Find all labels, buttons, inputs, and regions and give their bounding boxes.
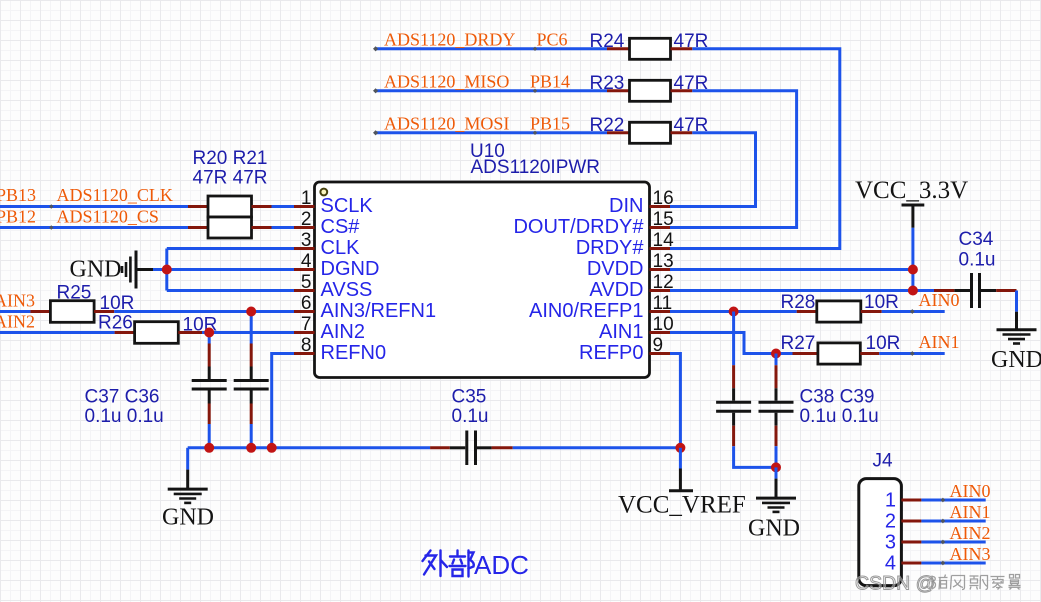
wire GND drop bottom-left — [186, 448, 189, 470]
capacitor C37 — [192, 333, 227, 448]
wire R26 to pin7 AIN2 — [202, 331, 294, 334]
capacitor C35 value 0.1u — [452, 406, 489, 427]
svg-text:REFN0: REFN0 — [321, 342, 387, 364]
resistor R22 right lead — [671, 131, 693, 134]
resistor R24 left lead — [607, 47, 630, 50]
resistor R27 value 10R — [866, 333, 901, 354]
J4 pin 4 stub — [901, 562, 921, 565]
U10 pin 12 name AVDD — [589, 279, 643, 301]
svg-text:GND: GND — [991, 347, 1041, 373]
connector J4 body — [859, 479, 902, 586]
wire pin11 AIN0/REFP1 — [670, 310, 797, 313]
net label ADS1120_CLK — [57, 185, 173, 205]
wire GND to pin4 DGND — [153, 268, 294, 271]
capacitor C38 C39 values — [800, 406, 879, 427]
U10 pin 4 number — [301, 251, 312, 272]
svg-text:4: 4 — [301, 251, 312, 272]
U10 pin 11 stub — [650, 310, 671, 313]
svg-text:9: 9 — [653, 335, 664, 356]
svg-text:ADS1120_MOSI: ADS1120_MOSI — [384, 113, 509, 133]
wire R27 to AIN1 label — [879, 352, 945, 355]
svg-text:AIN1: AIN1 — [919, 332, 960, 352]
connector J4 designator — [873, 451, 894, 472]
wire C35 to VREF junction — [513, 446, 681, 449]
svg-text:PB13: PB13 — [0, 185, 36, 205]
svg-text:DVDD: DVDD — [587, 258, 644, 280]
net label anchor AIN1 — [910, 351, 915, 356]
svg-text:R26: R26 — [98, 312, 133, 333]
resistor R24 value 47R — [674, 31, 709, 52]
wire to pin3 CLK — [167, 247, 294, 250]
net label PB15 — [530, 113, 570, 133]
net label AIN0 at J4 — [950, 481, 991, 501]
resistor R21 — [208, 217, 252, 238]
svg-text:2: 2 — [301, 209, 312, 230]
svg-text:DGND: DGND — [321, 258, 380, 280]
title text 外部ADC — [423, 550, 529, 580]
wire pin12 AVDD — [670, 289, 935, 292]
wire jog to R27 — [776, 352, 793, 355]
U10 pin 5 name AVSS — [321, 279, 373, 301]
U10 pin 13 stub — [650, 268, 671, 271]
resistor R23 — [630, 80, 671, 101]
junction C37 top — [204, 328, 214, 338]
junction REFN0 bottom — [267, 443, 277, 453]
capacitor C34 right pin — [996, 289, 1016, 292]
resistor R26 left lead — [115, 331, 135, 334]
net label anchor row2 — [533, 89, 537, 93]
wire J4 pin 3 AIN2 — [921, 541, 985, 544]
svg-text:1: 1 — [885, 489, 896, 511]
net label anchor J4 AIN3 — [941, 561, 946, 566]
U10 pin 16 stub — [650, 205, 671, 208]
svg-text:GND: GND — [748, 516, 800, 542]
svg-text:R28: R28 — [781, 292, 816, 313]
wire R25 to pin6 AIN3/REFN1 — [114, 310, 294, 313]
capacitor C35 right symbol lead — [477, 446, 492, 449]
wire to pin5 AVSS — [167, 289, 294, 292]
wire pin10 AIN1 jog — [670, 333, 776, 354]
svg-text:6: 6 — [301, 293, 312, 314]
svg-text:0.1u: 0.1u — [959, 249, 996, 270]
ground symbol GND top-right — [997, 312, 1037, 344]
U10 pin 1 name SCLK — [321, 195, 374, 217]
GND label top-right — [991, 347, 1041, 373]
resistor R20 R21 designators — [193, 148, 268, 169]
U10 pin 12 stub — [650, 289, 671, 292]
net label AIN1 right — [919, 332, 960, 352]
svg-text:CLK: CLK — [321, 237, 361, 259]
svg-text:REFP0: REFP0 — [579, 342, 643, 364]
U10 pin 12 number — [653, 272, 674, 293]
resistor R24 right lead — [671, 47, 693, 50]
J4 pin 4 number — [885, 552, 896, 574]
svg-text:47R 47R: 47R 47R — [193, 167, 268, 188]
svg-text:C34: C34 — [959, 229, 994, 250]
svg-text:ADS1120IPWR: ADS1120IPWR — [471, 157, 601, 178]
U10 pin-1 indicator — [320, 189, 327, 196]
net label AIN3 — [0, 290, 35, 310]
resistor R27 left lead — [793, 352, 818, 355]
resistor R28 left lead — [797, 310, 817, 313]
U10 pin 10 name AIN1 — [599, 321, 643, 343]
resistor R26 designator — [98, 312, 133, 333]
U10 pin 8 stub — [294, 352, 315, 355]
U10 pin 2 number — [301, 209, 312, 230]
resistor R21 right lead — [252, 226, 272, 229]
capacitor C39 — [759, 354, 794, 468]
svg-text:R24: R24 — [590, 31, 625, 52]
wire R22 to pin16 DIN — [670, 133, 756, 207]
wire net ADS1120_MISO__PB14 left segment — [376, 89, 607, 92]
U10 pin 16 number — [653, 188, 674, 209]
resistor R21 left lead — [188, 226, 208, 229]
U10 pin 7 number — [301, 314, 312, 335]
wire net ADS1120_MOSI__PB15 left segment — [376, 131, 607, 134]
resistor R25 designator — [57, 283, 92, 304]
U10 pin 3 name CLK — [321, 237, 361, 259]
wire R20 to pin1 SCLK — [272, 205, 295, 208]
net label AIN2 — [0, 312, 35, 332]
resistor R22 designator — [590, 115, 625, 136]
svg-text:0.1u: 0.1u — [452, 406, 489, 427]
power port VCC_VREF — [669, 448, 693, 491]
U10 pin 14 name DRDY# — [576, 237, 645, 259]
svg-text:0.1u 0.1u: 0.1u 0.1u — [800, 406, 879, 427]
U10 pin 10 stub — [650, 331, 671, 334]
U10 pin 15 number — [653, 209, 674, 230]
svg-text:4: 4 — [885, 552, 896, 574]
svg-text:GND: GND — [70, 257, 122, 283]
wire pin9 REFP0 down to VREF — [670, 354, 680, 448]
net label ADS1120_MOSI — [384, 113, 509, 133]
capacitor C35 left symbol lead — [450, 446, 466, 449]
wire end marker row3 — [373, 130, 378, 135]
svg-text:DRDY#: DRDY# — [576, 237, 645, 259]
capacitor C38 — [716, 312, 776, 468]
svg-text:C38 C39: C38 C39 — [800, 387, 875, 408]
resistor R26 — [135, 322, 179, 344]
resistor R22 value 47R — [674, 115, 709, 136]
resistor R20 R21 values — [193, 167, 268, 188]
wire net AIN2 — [0, 331, 115, 334]
junction C36 bottom — [246, 443, 256, 453]
capacitor C37 C36 designators — [85, 387, 160, 408]
resistor R22 left lead — [607, 131, 630, 134]
U10 designator — [470, 141, 505, 162]
net label anchor row1 — [533, 47, 537, 51]
U10 pin 10 number — [653, 314, 674, 335]
wire pin13 DVDD — [670, 268, 913, 271]
wire end marker row1 — [373, 46, 378, 51]
ground symbol GND left (rotated) — [122, 251, 153, 289]
wire junction to GND mid — [775, 467, 778, 478]
svg-text:R22: R22 — [590, 115, 625, 136]
wire R21 to pin2 CS# — [272, 226, 295, 229]
resistor R26 value 10R — [183, 314, 218, 335]
svg-text:VCC_3.3V: VCC_3.3V — [855, 177, 968, 204]
GND label mid — [748, 516, 800, 542]
resistor R23 designator — [590, 73, 625, 94]
net label AIN1 at J4 — [950, 502, 991, 522]
svg-text:3: 3 — [885, 531, 896, 553]
ground symbol GND mid — [756, 479, 796, 512]
wire VCC_3.3V down — [911, 228, 914, 291]
svg-text:DIN: DIN — [609, 195, 643, 217]
svg-text:AIN1: AIN1 — [950, 502, 991, 522]
U10 pin 16 name DIN — [609, 195, 643, 217]
resistor R28 designator — [781, 292, 816, 313]
resistor R24 designator — [590, 31, 625, 52]
resistor R23 right lead — [671, 89, 693, 92]
svg-text:ADS1120_DRDY: ADS1120_DRDY — [384, 29, 515, 49]
svg-text:VCC_VREF: VCC_VREF — [618, 492, 746, 519]
svg-text:AIN3/REFN1: AIN3/REFN1 — [321, 300, 437, 322]
op-amp U10 ADS1120IPWR body — [315, 182, 650, 378]
junction VCC-DVDD — [908, 265, 918, 275]
U10 pin 3 stub — [294, 247, 315, 250]
svg-text:SCLK: SCLK — [321, 195, 374, 217]
U10 pin 6 stub — [294, 310, 315, 313]
svg-text:15: 15 — [653, 209, 674, 230]
U10 pin 13 name DVDD — [587, 258, 644, 280]
svg-text:AVDD: AVDD — [589, 279, 643, 301]
net label ADS1120_DRDY — [384, 29, 515, 49]
wire GND bus vertical — [165, 249, 168, 291]
resistor R27 right lead — [860, 352, 879, 355]
resistor R25 left lead — [30, 310, 50, 313]
U10 pin 3 number — [301, 230, 312, 251]
capacitor C35 plates — [467, 431, 476, 466]
capacitor C34 left pin — [934, 289, 954, 292]
svg-text:ADS1120_CS: ADS1120_CS — [57, 206, 159, 226]
resistor R20 right lead — [252, 205, 272, 208]
svg-text:AIN0/REFP1: AIN0/REFP1 — [529, 300, 643, 322]
svg-text:AIN3: AIN3 — [950, 544, 991, 564]
capacitor C34 plates — [972, 273, 980, 308]
svg-text:0.1u 0.1u: 0.1u 0.1u — [85, 406, 164, 427]
net label PB14 — [530, 71, 570, 91]
capacitor C34 value 0.1u — [959, 249, 996, 270]
junction C38 C39 bottom — [771, 462, 781, 472]
svg-text:3: 3 — [301, 230, 312, 251]
capacitor C34 left symbol lead — [954, 289, 970, 292]
svg-text:DOUT/DRDY#: DOUT/DRDY# — [513, 216, 644, 238]
wire C34 to GND — [1015, 291, 1018, 312]
svg-text:AIN1: AIN1 — [599, 321, 643, 343]
svg-text:AIN3: AIN3 — [0, 290, 35, 310]
wire net ADS1120_CS — [0, 226, 188, 229]
resistor R20 left lead — [188, 205, 208, 208]
U10 pin 2 stub — [294, 226, 315, 229]
U10 pin 2 name CS# — [321, 216, 361, 238]
svg-text:8: 8 — [301, 335, 312, 356]
net label ADS1120_CS — [57, 206, 159, 226]
svg-text:CS#: CS# — [321, 216, 361, 238]
U10 pin 6 number — [301, 293, 312, 314]
net label PC6 — [537, 29, 568, 49]
svg-text:PB12: PB12 — [0, 206, 36, 226]
capacitor C35 designator — [452, 387, 487, 408]
svg-text:ADS1120_MISO: ADS1120_MISO — [384, 71, 509, 91]
U10 pin 13 number — [653, 251, 674, 272]
wire R23 to pin15 DOUT/DRDY# — [670, 91, 797, 228]
wire R28 to AIN0 label — [882, 310, 945, 313]
svg-text:5: 5 — [301, 272, 312, 293]
svg-text:AIN2: AIN2 — [321, 321, 365, 343]
net label AIN3 at J4 — [950, 544, 991, 564]
U10 pin 4 name DGND — [321, 258, 380, 280]
junction GND cluster — [162, 265, 172, 275]
net label anchor AIN0 — [910, 309, 915, 314]
junction C38 top — [729, 307, 739, 317]
U10 pin 14 number — [653, 230, 675, 251]
watermark CSDN @随风飘零翼 — [855, 573, 1021, 595]
svg-text:10R: 10R — [866, 333, 901, 354]
U10 pin 8 number — [301, 335, 312, 356]
resistor R23 value 47R — [674, 73, 709, 94]
svg-text:CSDN @: CSDN @ — [855, 573, 935, 595]
wire J4 pin 2 AIN1 — [921, 520, 985, 523]
U10 pin 4 stub — [294, 268, 315, 271]
U10 pin 9 name REFP0 — [579, 342, 643, 364]
svg-text:R23: R23 — [590, 73, 625, 94]
U10 pin 15 stub — [650, 226, 671, 229]
svg-text:J4: J4 — [873, 451, 894, 472]
U10 pin 8 name REFN0 — [321, 342, 387, 364]
U10 pin 15 name DOUT/DRDY# — [513, 216, 644, 238]
J4 pin 3 number — [885, 531, 896, 553]
U10 pin 14 stub — [650, 247, 671, 250]
GND label left — [70, 257, 122, 283]
U10 pin 11 name AIN0/REFP1 — [529, 300, 643, 322]
svg-text:GND: GND — [162, 505, 214, 531]
svg-text:AIN0: AIN0 — [950, 481, 991, 501]
U10 part number ADS1120IPWR — [471, 157, 601, 178]
junction C36 top — [246, 307, 256, 317]
wire J4 pin 4 AIN3 — [921, 562, 985, 565]
capacitor C37 C36 values — [85, 406, 164, 427]
U10 pin 6 name AIN3/REFN1 — [321, 300, 437, 322]
resistor R23 left lead — [607, 89, 630, 92]
U10 pin 1 stub — [294, 205, 315, 208]
resistor R22 — [630, 122, 671, 143]
junction VREF — [675, 443, 685, 453]
svg-text:R27: R27 — [781, 333, 816, 354]
net label anchor J4 AIN2 — [941, 540, 946, 545]
svg-text:16: 16 — [653, 188, 674, 209]
U10 pin 5 stub — [294, 289, 315, 292]
svg-text:C35: C35 — [452, 387, 487, 408]
wire pin8 REFN0 down — [272, 354, 294, 448]
wire net AIN3 — [0, 310, 30, 313]
net label ADS1120_MISO — [384, 71, 509, 91]
svg-text:ADC: ADC — [474, 550, 529, 580]
capacitor C35 right pin — [492, 446, 513, 449]
net label PB13 — [0, 185, 36, 205]
svg-text:PB14: PB14 — [530, 71, 570, 91]
U10 pin 11 number — [653, 293, 673, 314]
junction VCC-AVDD — [908, 286, 918, 296]
wire net ADS1120_DRDY__PC6 left segment — [376, 47, 607, 50]
J4 pin 1 number — [885, 489, 896, 511]
wire bottom GND bus — [188, 446, 430, 449]
svg-text:1: 1 — [301, 188, 312, 209]
net label AIN0 right — [919, 290, 960, 310]
resistor R28 — [817, 301, 861, 322]
J4 pin 2 number — [885, 510, 896, 532]
resistor R25 value 10R — [100, 293, 135, 314]
svg-text:AIN2: AIN2 — [950, 523, 991, 543]
net label AIN2 at J4 — [950, 523, 991, 543]
U10 pin 7 stub — [294, 331, 315, 334]
net label anchor PB13 row — [49, 204, 53, 208]
U10 pin 5 number — [301, 272, 312, 293]
svg-text:14: 14 — [653, 230, 675, 251]
ground symbol GND bottom-left — [168, 470, 208, 503]
capacitor C36 — [234, 312, 269, 448]
resistor R28 right lead — [861, 310, 882, 313]
wire J4 pin 1 AIN0 — [921, 499, 985, 502]
VCC_3.3V label — [855, 177, 968, 204]
net label anchor row3 — [533, 131, 537, 135]
svg-text:ADS1120_CLK: ADS1120_CLK — [57, 185, 173, 205]
svg-text:AIN0: AIN0 — [919, 290, 960, 310]
net label anchor PB12 row — [49, 225, 53, 229]
resistor R25 right lead — [94, 310, 114, 313]
resistor R25 — [50, 301, 94, 323]
net label PB12 — [0, 206, 36, 226]
J4 pin 2 stub — [901, 520, 921, 523]
U10 pin 9 number — [653, 335, 664, 356]
capacitor C34 right symbol lead — [981, 289, 996, 292]
resistor R27 designator — [781, 333, 816, 354]
GND label bottom-left — [162, 505, 214, 531]
svg-text:PC6: PC6 — [537, 29, 568, 49]
VCC_VREF label — [618, 492, 746, 519]
svg-text:R20 R21: R20 R21 — [193, 148, 268, 169]
capacitor C35 left pin — [430, 446, 450, 449]
svg-text:AVSS: AVSS — [321, 279, 373, 301]
net label anchor J4 AIN1 — [941, 519, 946, 524]
capacitor C38 C39 designators — [800, 387, 875, 408]
junction C37 bottom — [204, 443, 214, 453]
J4 pin 3 stub — [901, 541, 921, 544]
net label anchor J4 AIN0 — [941, 498, 946, 503]
resistor R24 — [630, 38, 671, 59]
svg-text:PB15: PB15 — [530, 113, 570, 133]
svg-text:7: 7 — [301, 314, 312, 335]
wire net ADS1120_CLK — [0, 205, 188, 208]
resistor R27 — [818, 343, 860, 364]
svg-text:11: 11 — [653, 293, 673, 314]
wire end marker row2 — [373, 88, 378, 93]
U10 pin 7 name AIN2 — [321, 321, 365, 343]
resistor R20 — [208, 196, 252, 217]
power port VCC_3.3V — [902, 205, 925, 228]
resistor R26 right lead — [178, 331, 202, 334]
svg-text:R25: R25 — [57, 283, 92, 304]
wire R24 to pin14 DRDY# — [670, 49, 840, 249]
junction C39 top — [771, 349, 781, 359]
svg-text:C37 C36: C37 C36 — [85, 387, 160, 408]
U10 pin 9 stub — [650, 352, 671, 355]
U10 pin 1 number — [301, 188, 312, 209]
svg-text:10R: 10R — [864, 292, 899, 313]
capacitor C34 designator — [959, 229, 994, 250]
J4 pin 1 stub — [901, 499, 921, 502]
resistor R28 value 10R — [864, 292, 899, 313]
